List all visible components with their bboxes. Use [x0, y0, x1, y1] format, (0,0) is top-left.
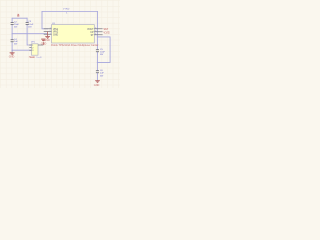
- svg-text:Pololu TPS2113A Power Multiple: Pololu TPS2113A Power Multiplexer Carrie…: [51, 44, 99, 47]
- svg-text:GND: GND: [9, 56, 15, 59]
- svg-text:Header: Header: [29, 56, 35, 59]
- svg-text:VIN2: VIN2: [63, 9, 70, 11]
- svg-text:VOUT: VOUT: [87, 29, 94, 31]
- svg-text:4: 4: [95, 33, 96, 35]
- svg-text:1: 1: [50, 27, 51, 29]
- svg-text:GND: GND: [41, 42, 47, 45]
- svg-text:VIN1: VIN1: [53, 29, 59, 31]
- svg-text:3: 3: [50, 33, 51, 35]
- svg-text:GND: GND: [53, 34, 58, 36]
- svg-text:6: 6: [95, 27, 96, 29]
- svg-text:5: 5: [95, 30, 96, 32]
- svg-text:GND: GND: [94, 84, 100, 87]
- svg-text:1x3: 1x3: [36, 57, 42, 59]
- svg-text:1uF: 1uF: [100, 73, 104, 75]
- svg-text:CP: CP: [90, 32, 94, 34]
- svg-text:VOUT2: VOUT2: [103, 31, 110, 34]
- svg-text:2: 2: [50, 30, 51, 32]
- svg-text:VIN2: VIN2: [53, 32, 59, 34]
